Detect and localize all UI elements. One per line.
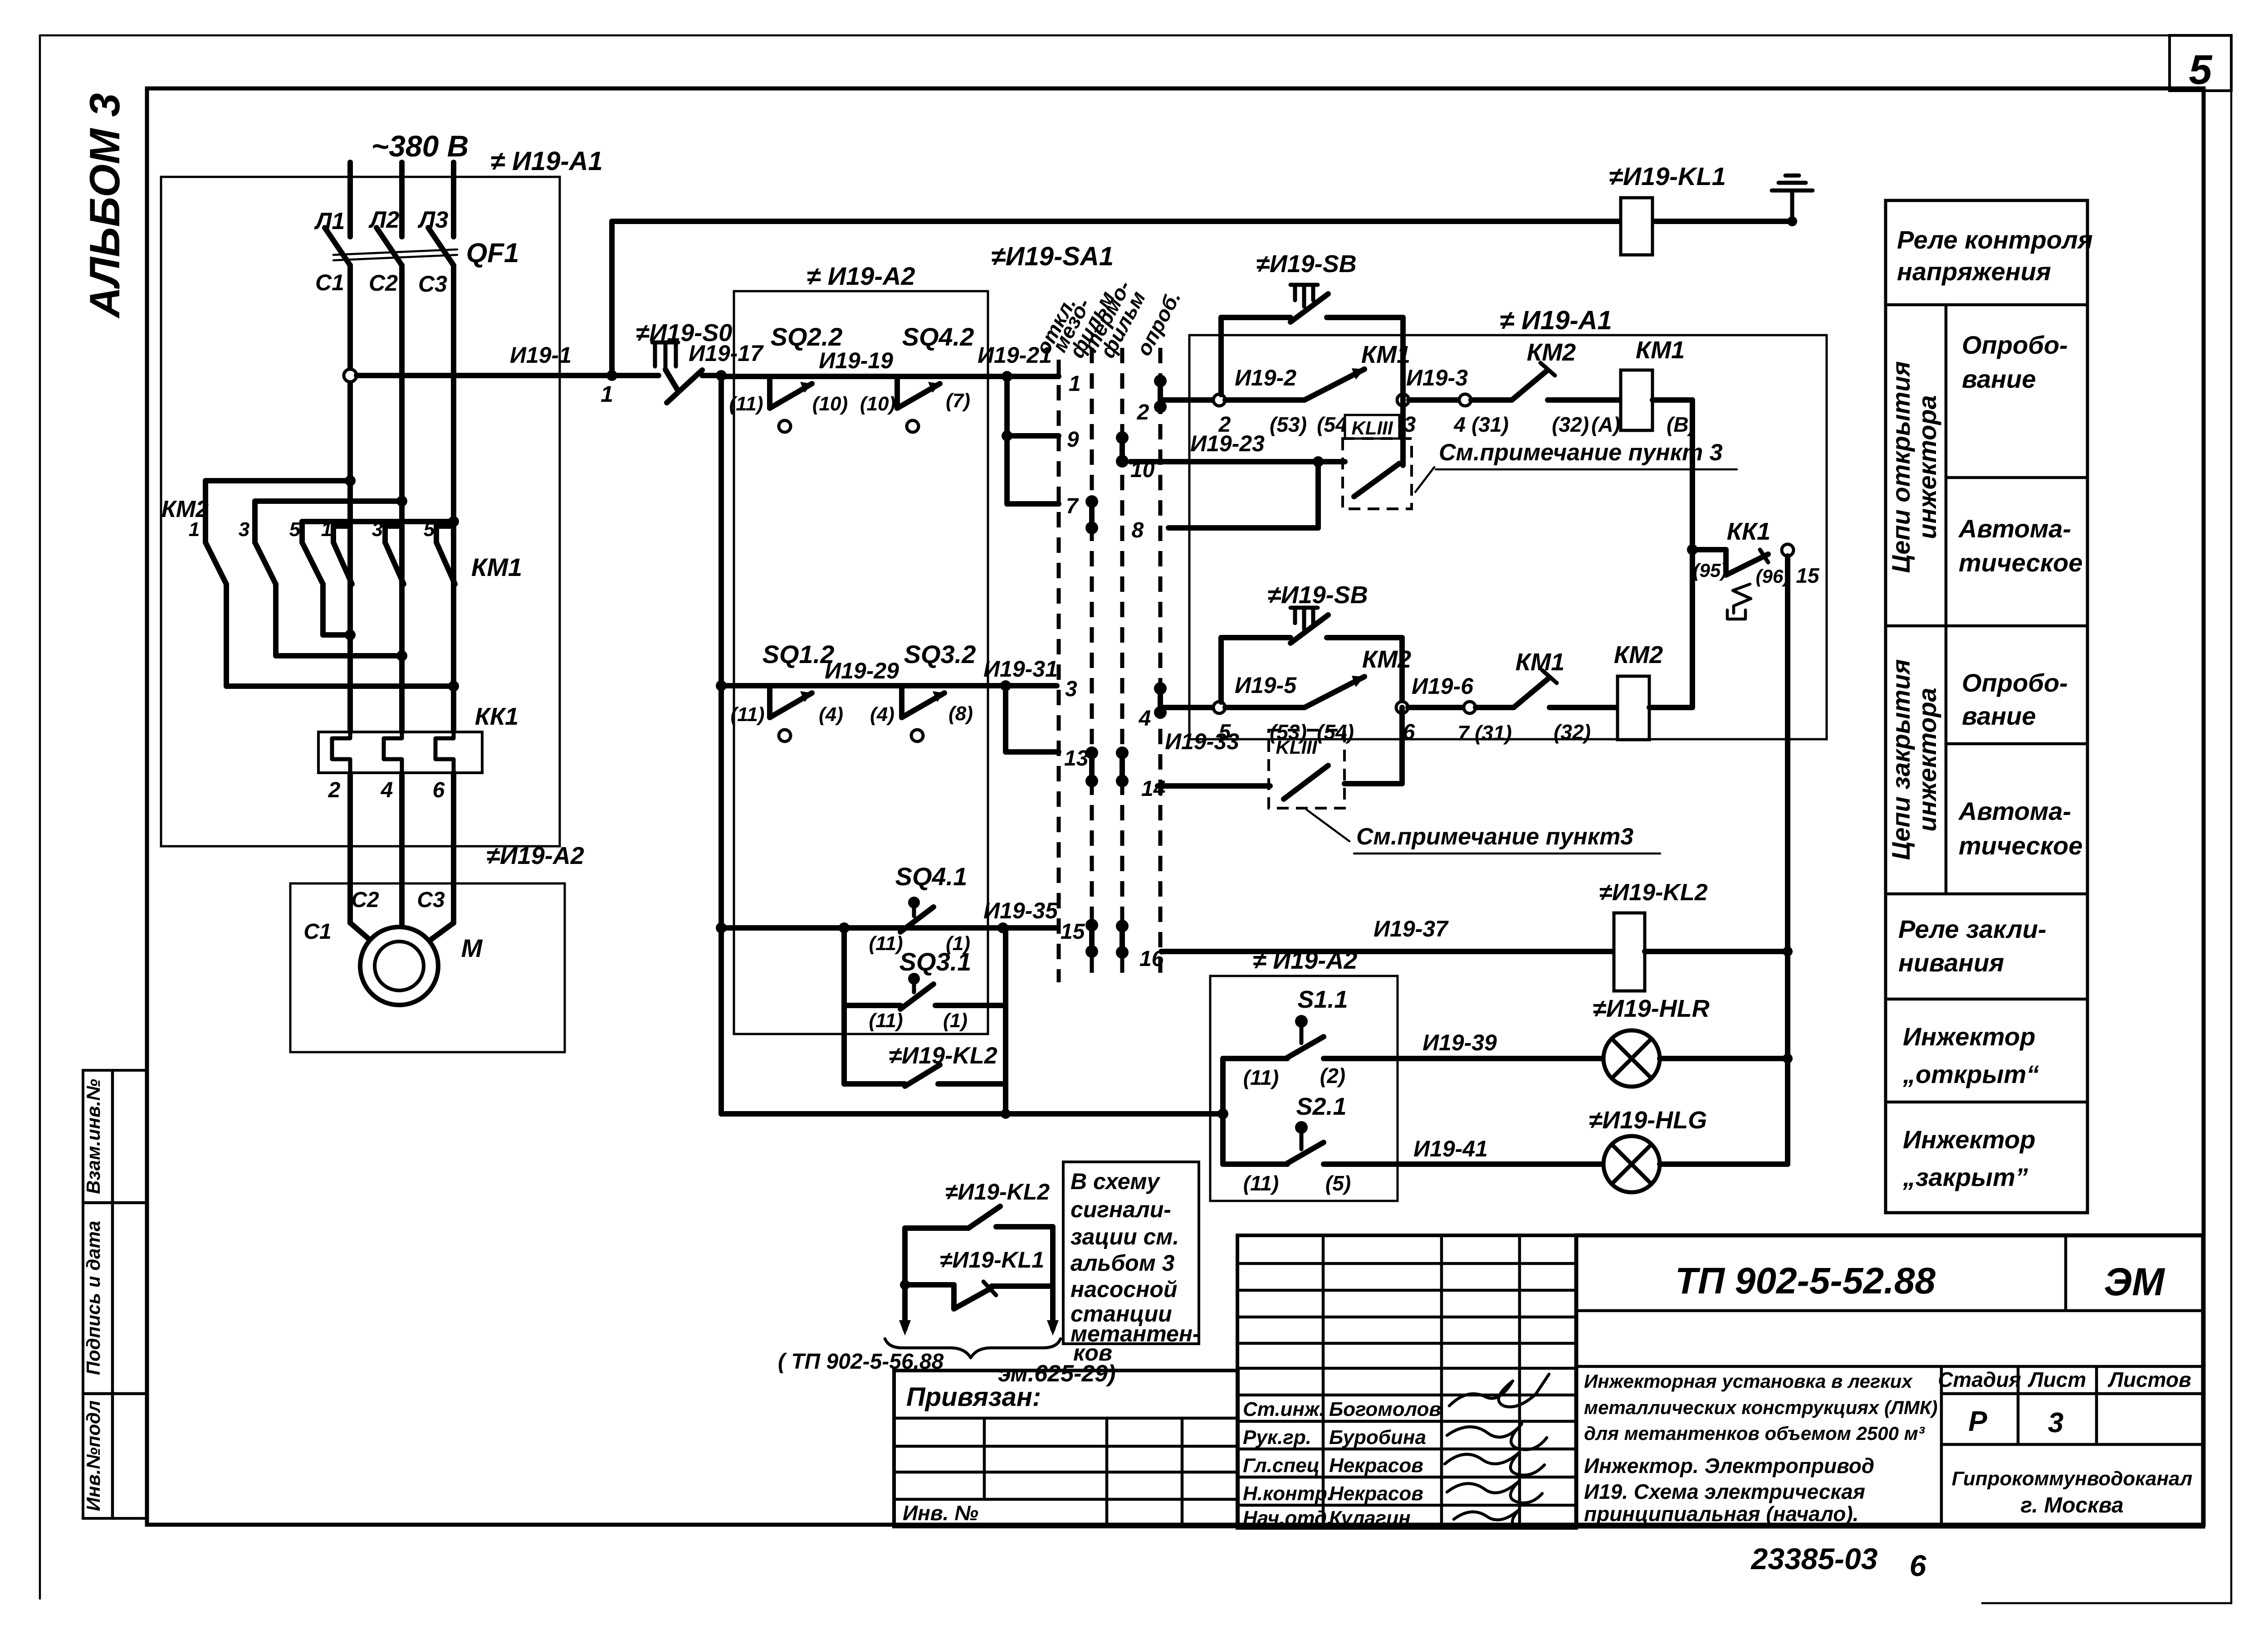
svg-text:≠И19-KL1: ≠И19-KL1: [1609, 162, 1726, 190]
svg-text:См.примечание пункт3: См.примечание пункт3: [1356, 824, 1633, 850]
svg-text:Инжекторная установка в легких: Инжекторная установка в легких: [1584, 1371, 1913, 1392]
svg-text:Н.контр.: Н.контр.: [1243, 1483, 1333, 1505]
relay contact KLIII (in dashed box, row 10): [1343, 395, 1412, 509]
svg-text:3: 3: [1065, 677, 1077, 701]
svg-text:И19-3: И19-3: [1406, 365, 1468, 390]
svg-text:И19-35: И19-35: [983, 898, 1058, 923]
svg-text:И19. Схема электрическая: И19. Схема электрическая: [1584, 1480, 1865, 1503]
svg-text:И19-1: И19-1: [510, 342, 572, 368]
phase input lines Л1 Л2 Л3: [314, 162, 454, 237]
panel box ≠И19-А2 (limit switches): [734, 262, 988, 1034]
node И19-17 junction: [689, 341, 764, 381]
svg-text:≠И19-НLR: ≠И19-НLR: [1593, 995, 1710, 1022]
svg-text:И19-39: И19-39: [1422, 1030, 1497, 1055]
svg-text:ЭМ: ЭМ: [2104, 1260, 2165, 1304]
svg-text:Кулагин: Кулагин: [1329, 1507, 1411, 1529]
motor box: [290, 883, 565, 1052]
svg-text:Инжектор: Инжектор: [1903, 1125, 2035, 1154]
svg-text:≠ И19-А2: ≠ И19-А2: [1253, 947, 1358, 974]
ground symbol: [1772, 176, 1813, 226]
svg-text:металлических конструкциях (ЛМ: металлических конструкциях (ЛМК): [1584, 1397, 1938, 1418]
wire И19-29: [825, 658, 899, 683]
row 3 wire (И19-29 .. И19-31): [716, 680, 1057, 691]
svg-text:SQ1.2: SQ1.2: [763, 640, 835, 668]
svg-text:Буробина: Буробина: [1329, 1426, 1426, 1449]
row 2 wire from SA1: [1160, 397, 1214, 403]
svg-text:(32): (32): [1554, 720, 1591, 744]
svg-text:И19-33: И19-33: [1165, 729, 1239, 754]
interlock contact ≠И19-KL2 branch: [844, 1005, 1006, 1114]
switch S1.1: [1223, 986, 1604, 1089]
terminal 5: [1213, 673, 1305, 744]
svg-text:2: 2: [1137, 400, 1149, 424]
svg-text:Некрасов: Некрасов: [1329, 1483, 1423, 1505]
panel box ≠И19-А2 (control switches): [1210, 947, 1398, 1201]
svg-text:Автома-: Автома-: [1958, 514, 2071, 543]
svg-text:Опробо-: Опробо-: [1962, 668, 2068, 697]
svg-text:15: 15: [1796, 564, 1820, 587]
svg-text:≠И19-KL1: ≠И19-KL1: [940, 1247, 1044, 1273]
brace to ТП 902-5-56.88: [778, 1339, 1116, 1387]
contactor aux contact КМ1 (53-54): [1270, 341, 1410, 436]
svg-text:Стадия: Стадия: [1938, 1368, 2021, 1391]
svg-text:КМ2: КМ2: [161, 496, 209, 522]
node И19-21: [978, 342, 1052, 382]
svg-text:≠И19-KL2: ≠И19-KL2: [1599, 879, 1707, 906]
switch S2.1: [1223, 1093, 1604, 1195]
phase line C1: [347, 265, 353, 732]
svg-text:1: 1: [601, 381, 613, 407]
KM2 crossover return wires: [226, 584, 459, 692]
phase line C2: [399, 265, 405, 732]
main drawing frame: [147, 88, 2204, 1525]
svg-text:13: 13: [1064, 746, 1089, 771]
svg-text:≠И19-KL2: ≠И19-KL2: [945, 1179, 1050, 1205]
svg-text:≠ И19-А2: ≠ И19-А2: [807, 262, 915, 290]
svg-text:И19-19: И19-19: [819, 348, 893, 373]
svg-text:насосной: насосной: [1070, 1277, 1177, 1302]
svg-text:КМ1: КМ1: [1361, 341, 1410, 368]
svg-text:Цепи закрытия: Цепи закрытия: [1887, 659, 1915, 860]
svg-text:Инжектор: Инжектор: [1903, 1022, 2035, 1051]
svg-text:Инв.№подл: Инв.№подл: [83, 1400, 104, 1511]
right legend table: [1886, 200, 2093, 1213]
svg-text:3: 3: [239, 518, 249, 541]
svg-text:9: 9: [1067, 428, 1079, 452]
svg-text:И19-17: И19-17: [689, 341, 764, 366]
svg-text:(4): (4): [819, 703, 843, 726]
title block: main right part: [1576, 1235, 2203, 1527]
svg-text:КК1: КК1: [475, 703, 518, 730]
thermal relay KK1 heaters: [318, 703, 518, 802]
contactor interlock КМ1 (31-32) NC: [1514, 649, 1618, 744]
svg-text:≠И19-НLG: ≠И19-НLG: [1589, 1107, 1707, 1134]
SA1 contact pair 7-8: [1085, 495, 1144, 542]
contactor coil КМ2: [1614, 641, 1692, 740]
svg-text:ТП 902-5-52.88: ТП 902-5-52.88: [1675, 1260, 1936, 1302]
svg-text:(31): (31): [1471, 413, 1509, 436]
svg-text:г. Москва: г. Москва: [2020, 1493, 2123, 1517]
svg-text:Реле закли-: Реле закли-: [1898, 915, 2046, 943]
svg-text:14: 14: [1141, 777, 1165, 801]
svg-text:инжектора: инжектора: [1913, 395, 1941, 539]
svg-text:6: 6: [1910, 1549, 1927, 1582]
svg-text:Ст.инж.: Ст.инж.: [1243, 1398, 1325, 1420]
terminal 7: [1457, 702, 1514, 745]
SA1 contact pairs 15-16: [1085, 919, 1164, 971]
svg-text:≠И19-А2: ≠И19-А2: [486, 842, 584, 869]
svg-text:(10): (10): [860, 393, 895, 415]
svg-text:КМ1: КМ1: [1636, 337, 1685, 364]
svg-text:SQ2.2: SQ2.2: [771, 322, 843, 351]
note См.примечание пункт 3 (first): [1415, 439, 1737, 492]
wire И19-1 bus: [357, 342, 659, 376]
node 1 (junction to top bus): [601, 370, 617, 407]
svg-text:~380 В: ~380 В: [371, 129, 469, 163]
svg-text:И19-29: И19-29: [825, 658, 899, 683]
main left feeder riser (down to rows 3,15 and bottom bus): [719, 376, 724, 1114]
title block: signature table: [1237, 1235, 1576, 1529]
svg-text:(10): (10): [812, 393, 848, 415]
row 1 wire (И19-17 .. И19-21): [721, 374, 1057, 379]
note box В схему сигнализации: [1063, 1162, 1200, 1366]
svg-text:И19-2: И19-2: [1235, 365, 1296, 390]
svg-text:зации см.: зации см.: [1070, 1224, 1179, 1249]
SA1 dashed column опроб.: [1132, 287, 1185, 982]
svg-text:Р: Р: [1968, 1406, 1987, 1437]
right riser (KK1 to lamps): [1785, 556, 1790, 1164]
limit switch SQ4.1: [869, 862, 1059, 955]
SA1 contact pairs 13-14: [1085, 746, 1165, 801]
note 23385-03: [1750, 1542, 1927, 1582]
svg-text:(11): (11): [1243, 1066, 1279, 1089]
svg-text:( ТП 902-5-56.88: ( ТП 902-5-56.88: [778, 1350, 944, 1374]
limit switch SQ1.2: [731, 640, 843, 741]
svg-text:„открыт“: „открыт“: [1902, 1060, 2039, 1088]
svg-text:(11): (11): [869, 932, 903, 955]
svg-text:(8): (8): [948, 702, 973, 725]
terminal 6 И19-6: [1396, 673, 1474, 744]
svg-text:Гл.спец: Гл.спец: [1243, 1454, 1320, 1477]
svg-text:4: 4: [1453, 413, 1466, 436]
svg-text:альбом 3: альбом 3: [1070, 1250, 1175, 1276]
signal lamp ≠И19-HLG: [1589, 1107, 1788, 1192]
svg-text:С3: С3: [417, 888, 445, 912]
wire И19-23 (row 10): [1130, 431, 1345, 467]
SA1 dashed column термо-фильм: [1078, 276, 1150, 982]
svg-text:В схему: В схему: [1070, 1169, 1161, 1194]
svg-text:Листов: Листов: [2107, 1368, 2191, 1391]
svg-text:С1: С1: [303, 920, 331, 944]
svg-text:(А): (А): [1591, 413, 1620, 436]
reference fragment arrows: [899, 1320, 1059, 1336]
node И19-31 and branch to 13: [983, 656, 1059, 752]
svg-text:М: М: [461, 934, 483, 962]
branch to terminals 9 and 7: [1002, 376, 1059, 504]
svg-text:КМ1: КМ1: [471, 553, 522, 581]
svg-text:сигнали-: сигнали-: [1070, 1197, 1171, 1222]
svg-text:Подпись и дата: Подпись и дата: [83, 1221, 104, 1375]
svg-text:Гипрокоммунводоканал: Гипрокоммунводоканал: [1952, 1468, 2193, 1490]
svg-text:2: 2: [328, 778, 341, 802]
svg-text:3: 3: [2048, 1407, 2063, 1439]
SA1 terminal numbers left column: [1039, 372, 1089, 944]
svg-text:Богомолов: Богомолов: [1329, 1398, 1441, 1420]
disconnect switch ≠И19-S0: [636, 319, 733, 403]
terminal 3 И19-3: [1397, 365, 1468, 437]
svg-text:(11): (11): [729, 393, 763, 415]
svg-text:тическое: тическое: [1959, 548, 2082, 577]
svg-text:KLIII: KLIII: [1276, 737, 1318, 758]
bottom control bus: [721, 1108, 1228, 1119]
svg-text:См.примечание пункт 3: См.примечание пункт 3: [1439, 439, 1723, 466]
svg-text:≠ И19-А1: ≠ И19-А1: [1500, 306, 1612, 335]
circuit breaker QF1: [315, 228, 519, 297]
svg-text:1: 1: [189, 518, 200, 541]
svg-text:И19-6: И19-6: [1412, 673, 1474, 699]
svg-text:KLIII: KLIII: [1352, 417, 1393, 439]
svg-text:Л3: Л3: [417, 207, 449, 233]
svg-text:(4): (4): [870, 703, 894, 726]
svg-text:Нач.отд.: Нач.отд.: [1243, 1507, 1332, 1529]
svg-text:нивания: нивания: [1898, 948, 2004, 977]
svg-text:вание: вание: [1962, 365, 2036, 393]
svg-text:Инжектор. Электропривод: Инжектор. Электропривод: [1584, 1454, 1874, 1478]
svg-text:5: 5: [289, 518, 301, 541]
svg-text:4: 4: [1139, 707, 1151, 731]
svg-text:напряжения: напряжения: [1897, 257, 2051, 286]
svg-text:(11): (11): [869, 1010, 903, 1032]
terminal 4: [1453, 394, 1512, 436]
svg-text:С2: С2: [369, 270, 398, 296]
svg-text:И19-37: И19-37: [1374, 916, 1449, 941]
pushbutton ≠И19-SB (close test): [1221, 581, 1402, 702]
panel box ≠И19-А1 (power section enclosure): [161, 146, 603, 846]
svg-text:(1): (1): [943, 1010, 968, 1032]
wire И19-33 (row 14): [1158, 729, 1270, 786]
svg-text:S1.1: S1.1: [1297, 986, 1348, 1013]
motor feeder wires: [303, 773, 454, 946]
svg-text:И19-23: И19-23: [1190, 431, 1265, 456]
svg-text:≠ И19-А1: ≠ И19-А1: [490, 146, 603, 176]
limit switch SQ2.2: [729, 322, 848, 432]
svg-text:(31): (31): [1475, 721, 1512, 745]
relay contact KLIII (in dashed box, row 14): [1269, 707, 1402, 808]
SA1 dashed column откл.: [1031, 293, 1080, 982]
left stamp column: [83, 1070, 147, 1518]
svg-text:(95): (95): [1693, 560, 1727, 581]
contactor interlock КМ2 (31-32) NC: [1512, 339, 1621, 436]
svg-text:≠И19-KL2: ≠И19-KL2: [889, 1043, 997, 1069]
riser from row2 to row4 (right side): [1687, 400, 1698, 707]
svg-text:SQ4.1: SQ4.1: [895, 862, 968, 891]
label ≠И19-А2 (motor panel): [486, 842, 584, 869]
svg-text:принципиальная (начало).: принципиальная (начало).: [1584, 1502, 1859, 1526]
svg-text:„закрыт”: „закрыт”: [1902, 1163, 2028, 1191]
node И19-1 tap (open circle): [344, 369, 357, 382]
svg-text:Цепи открытия: Цепи открытия: [1887, 361, 1915, 573]
svg-text:КМ1: КМ1: [1515, 649, 1564, 676]
svg-text:7: 7: [1457, 721, 1470, 745]
title block: Привязан table: [894, 1371, 1238, 1527]
contactor aux contact КМ2 (53-54): [1270, 646, 1411, 744]
svg-text:(11): (11): [1243, 1171, 1279, 1195]
svg-text:С3: С3: [418, 271, 447, 297]
wire riser to top bus: [609, 221, 615, 376]
row 8 wire: [1168, 462, 1318, 528]
svg-text:И19-5: И19-5: [1235, 673, 1297, 698]
vertical text АЛЬБОМ 3: [81, 93, 128, 318]
SA1 contact pair 3-4: [1139, 682, 1167, 731]
svg-text:15: 15: [1061, 920, 1085, 944]
svg-text:4: 4: [381, 778, 393, 802]
terminal 2 (open circle): [1213, 365, 1305, 437]
contactor KM2 main contacts: [161, 481, 323, 584]
reference fragment: contact ≠И19-KL2: [905, 1179, 1053, 1329]
svg-text:7: 7: [1066, 494, 1079, 518]
svg-text:(96): (96): [1756, 566, 1790, 587]
SA1 dashed column мезо-фильм: [1047, 287, 1119, 982]
svg-text:(11): (11): [731, 703, 765, 726]
KM2 feed taps from phase lines: [205, 475, 459, 527]
svg-text:для метантенков объемом 2500 м: для метантенков объемом 2500 м³: [1584, 1423, 1925, 1444]
svg-text:≠И19-SА1: ≠И19-SА1: [991, 242, 1114, 271]
motor M: [360, 927, 483, 1005]
svg-text:С1: С1: [315, 270, 344, 295]
reference fragment: contact ≠И19-KL1: [900, 1247, 1053, 1309]
relay coil ≠И19-KL2: [1599, 879, 1793, 991]
svg-text:Лист: Лист: [2028, 1368, 2086, 1391]
thermal relay contact КК1 (95-96): [1692, 518, 1820, 619]
svg-text:КМ2: КМ2: [1527, 339, 1576, 366]
signal lamp ≠И19-HLR: [1593, 995, 1793, 1087]
svg-text:(7): (7): [946, 390, 970, 412]
limit switch SQ3.1 branch: [844, 928, 1006, 1032]
wire И19-37 (row 16): [1161, 916, 1614, 951]
svg-text:Автома-: Автома-: [1958, 797, 2071, 825]
svg-text:Взам.инв.№: Взам.инв.№: [83, 1079, 104, 1194]
svg-text:КМ2: КМ2: [1362, 646, 1411, 673]
svg-text:И19-41: И19-41: [1413, 1136, 1488, 1161]
limit switch SQ4.2: [860, 322, 974, 432]
phase line C3: [451, 265, 456, 732]
svg-text:С2: С2: [351, 888, 379, 912]
svg-text:(32): (32): [1552, 413, 1589, 436]
svg-text:S2.1: S2.1: [1296, 1093, 1346, 1120]
SA1 contact pair 1-2: [1137, 375, 1167, 424]
signatures squiggles: [1449, 1374, 1549, 1407]
svg-text:Инв. №: Инв. №: [903, 1501, 978, 1525]
svg-text:SQ3.1: SQ3.1: [899, 947, 972, 976]
svg-text:23385-03: 23385-03: [1750, 1542, 1878, 1575]
svg-text:тическое: тическое: [1959, 831, 2082, 860]
svg-text:(53): (53): [1270, 413, 1307, 436]
svg-text:Некрасов: Некрасов: [1329, 1454, 1423, 1477]
svg-text:Рук.гр.: Рук.гр.: [1243, 1426, 1311, 1449]
svg-text:6: 6: [433, 778, 445, 802]
SA1 contact pair 9-10: [1116, 431, 1155, 482]
svg-text:вание: вание: [1962, 702, 2036, 730]
limit switch SQ3.2: [870, 640, 976, 741]
svg-text:1: 1: [1069, 372, 1081, 396]
relay coil ≠И19-KL1 (on top bus): [1609, 162, 1726, 255]
svg-text:(5): (5): [1325, 1171, 1351, 1195]
top control bus: [612, 219, 1792, 224]
svg-text:SQ4.2: SQ4.2: [902, 322, 974, 351]
contactor KM1 main contacts: [321, 518, 522, 584]
svg-text:АЛЬБОМ 3: АЛЬБОМ 3: [81, 93, 128, 318]
svg-text:инжектора: инжектора: [1913, 688, 1941, 831]
row 15 wire (SQ4.1 / И19-35): [716, 922, 1057, 933]
svg-text:КК1: КК1: [1727, 518, 1770, 545]
svg-text:Реле контроля: Реле контроля: [1897, 225, 2093, 254]
row 4 wire from SA1: [1160, 705, 1214, 710]
svg-text:КМ2: КМ2: [1614, 641, 1663, 668]
svg-text:Опробо-: Опробо-: [1962, 331, 2068, 359]
svg-text:≠И19-SВ: ≠И19-SВ: [1267, 581, 1368, 609]
svg-text:Л2: Л2: [368, 207, 400, 233]
svg-text:SQ3.2: SQ3.2: [904, 640, 976, 668]
switch block inner riser: [1220, 1058, 1226, 1164]
svg-text:(54): (54): [1317, 720, 1354, 744]
svg-text:≠И19-SВ: ≠И19-SВ: [1256, 250, 1357, 278]
wire И19-19: [819, 348, 893, 373]
contactor coil КМ1: [1621, 337, 1696, 436]
note См.примечание пункт 3 (second): [1306, 810, 1660, 854]
panel box ≠ И19-А1 (relay circuits enclosure): [1189, 306, 1827, 739]
sheet number box "5": [2170, 35, 2231, 93]
svg-text:(2): (2): [1320, 1064, 1345, 1088]
svg-text:QF1: QF1: [466, 238, 519, 268]
pushbutton ≠И19-SB (open test): [1221, 250, 1403, 395]
svg-text:8: 8: [1132, 518, 1144, 542]
selector switch ≠И19-SA1 label: [991, 242, 1114, 271]
label ~380 В: [371, 129, 469, 163]
svg-text:ков: ков: [1073, 1340, 1112, 1366]
svg-text:5: 5: [2189, 47, 2213, 93]
svg-text:И19-31: И19-31: [983, 656, 1058, 682]
